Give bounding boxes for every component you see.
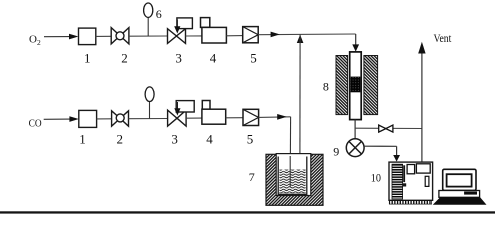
svg-text:4: 4 [210,50,217,65]
reactor 8 right heater block [364,56,378,115]
reactor 8 left heater block [336,56,348,115]
GC base strip [389,200,431,204]
wire [97,118,112,120]
wire [226,35,242,37]
computer drive slot [464,192,477,195]
wire [129,35,168,37]
svg-text:4: 4 [206,131,213,146]
wire dip tube down into beaker [289,117,291,187]
valve 2 (top) [111,28,129,44]
bulb 6 [144,3,153,17]
valve 3 (bottom) [168,101,195,127]
GC small panel A [407,165,415,174]
svg-text:Vent: Vent [434,33,453,45]
svg-text:5: 5 [250,50,256,65]
svg-text:2: 2 [117,131,124,146]
svg-text:5: 5 [247,131,254,146]
box 5 (top) [243,27,259,43]
wire O2 inlet arrow [44,34,78,40]
svg-text:3: 3 [175,50,182,65]
GC right slot [425,176,429,186]
wire reactor outlet down [354,120,356,139]
valve 2 (bottom) [112,111,129,126]
computer screen [447,174,472,186]
svg-text:CO: CO [29,117,42,129]
bottom rule [0,211,495,213]
box 4 (top) [201,18,227,43]
computer monitor [443,169,476,190]
svg-text:1: 1 [79,131,86,146]
wire to saturator with arrow [259,114,291,120]
pump 9 [346,139,364,157]
box 5 (bottom) [243,109,259,125]
wire to reactor with arrow [258,32,356,38]
catalyst bed [351,77,361,93]
vent arrowhead [418,42,425,54]
wire down into reactor [352,34,359,52]
box 1 (top) [79,28,96,44]
svg-text:9: 9 [333,145,339,159]
bulb (bottom) [145,87,154,102]
liquid [279,170,305,194]
svg-text:2: 2 [121,50,128,65]
wire saturator outlet up [299,35,301,166]
junction up-arrowhead [297,35,304,43]
bulb 6 stem [147,17,149,36]
GC thin bar [403,165,405,182]
beaker in furnace [278,157,307,195]
GC louvre stack [392,164,403,199]
svg-text:6: 6 [156,7,162,21]
box 4 (bottom) [202,101,226,125]
wire vent riser [421,53,423,163]
svg-text:10: 10 [371,173,381,185]
wire [226,117,243,119]
furnace 7 body [266,154,323,206]
wire [186,117,202,119]
GC dot [403,183,406,186]
svg-text:8: 8 [323,80,329,94]
wire [186,35,202,37]
svg-text:1: 1 [84,50,91,65]
computer keyboard [433,197,487,204]
vent valve [379,125,393,132]
wire CO inlet arrow [44,116,79,122]
reactor 8 tube [350,52,362,120]
svg-text:3: 3 [171,131,178,146]
wire to vent valve [355,127,422,129]
GC 10 body [389,162,433,200]
wire [129,118,168,120]
dip tube segment inside [289,156,291,187]
wire [96,35,111,37]
computer system unit [439,191,480,198]
bulb stem (bottom) [149,101,151,118]
box 1 (bottom) [79,110,97,127]
valve 3 (top) [168,18,193,44]
svg-text:7: 7 [249,170,255,184]
GC small panel B [416,164,430,173]
wire 9 to GC with arrow [364,146,400,161]
